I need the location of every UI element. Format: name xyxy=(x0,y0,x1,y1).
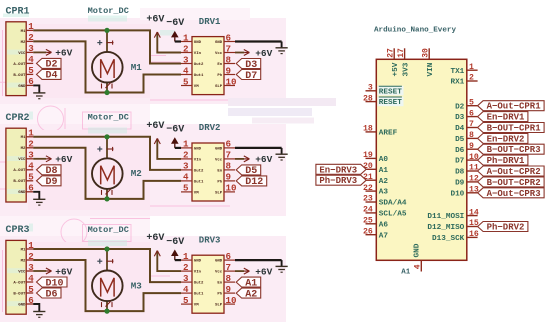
global label En-DRV2 on Arduino xyxy=(478,133,528,143)
svg-text:DRV3: DRV3 xyxy=(199,235,221,245)
svg-text:+6V: +6V xyxy=(146,233,164,244)
svg-text:Out1: Out1 xyxy=(194,74,204,78)
svg-text:+6V: +6V xyxy=(255,266,272,277)
global label D4 on CPR1 B-OUT xyxy=(37,69,62,79)
svg-text:A1: A1 xyxy=(401,269,411,277)
junction at motor M3 bottom xyxy=(104,309,109,314)
global label B-OUT-CPR1 on Arduino xyxy=(478,123,544,133)
power -6V at DRV1 GND pin1 xyxy=(166,18,184,41)
svg-text:1: 1 xyxy=(183,139,189,150)
svg-text:D13_SCK: D13_SCK xyxy=(432,235,465,243)
svg-text:DRV2: DRV2 xyxy=(199,123,221,133)
svg-text:A3: A3 xyxy=(379,189,389,197)
svg-text:SDA/A4: SDA/A4 xyxy=(379,200,407,208)
svg-text:B-OUT: B-OUT xyxy=(13,180,26,184)
svg-text:D7: D7 xyxy=(455,158,465,166)
svg-text:Vcc: Vcc xyxy=(215,271,223,275)
svg-text:Out2: Out2 xyxy=(194,169,204,173)
global label B-OUT-CPR2 on Arduino xyxy=(478,177,544,187)
svg-text:En−DRV3: En−DRV3 xyxy=(319,165,357,175)
svg-text:GND: GND xyxy=(18,303,26,307)
pin 17 3V3 (top) xyxy=(397,48,411,77)
pin 7 D4 (right) xyxy=(455,120,478,133)
pin 14 D11_MOSI (right) xyxy=(427,208,479,221)
svg-text:En−DRV2: En−DRV2 xyxy=(487,134,525,144)
svg-text:5: 5 xyxy=(28,172,34,183)
svg-text:−6V: −6V xyxy=(166,125,184,136)
svg-text:16: 16 xyxy=(469,230,479,239)
driver IC DRV2 (DRV8838) xyxy=(181,123,237,201)
svg-text:4: 4 xyxy=(183,284,189,295)
svg-text:GND: GND xyxy=(194,260,202,264)
wire CPR1 pin1 (M1) to DRV1 Out2 xyxy=(33,30,181,63)
driver IC DRV3 (DRV8838) xyxy=(181,235,237,313)
svg-text:1: 1 xyxy=(469,63,474,72)
encoder CPR3 xyxy=(6,225,35,314)
pin 20 A1 (left) xyxy=(363,162,388,175)
svg-text:4: 4 xyxy=(28,54,34,65)
power +6V at DRV2 Vcc xyxy=(235,154,273,165)
svg-text:M1: M1 xyxy=(131,62,143,73)
svg-text:7: 7 xyxy=(226,262,232,273)
svg-text:3: 3 xyxy=(183,54,189,65)
power -6V at DRV2 GND pin1 xyxy=(166,125,184,148)
svg-text:M2: M2 xyxy=(21,259,26,263)
wire CPR2 pin2 (M2) to DRV2 Out1 xyxy=(33,148,181,199)
svg-text:5: 5 xyxy=(28,65,34,76)
svg-text:+6V: +6V xyxy=(146,14,164,25)
svg-text:A-OUT: A-OUT xyxy=(13,169,26,173)
global label B-OUT-CPR3 on Arduino xyxy=(478,144,544,154)
svg-text:VCC: VCC xyxy=(18,158,26,162)
svg-text:A7: A7 xyxy=(379,232,389,240)
global label En-DRV1 on Arduino xyxy=(478,112,528,122)
global label A-Out-CPR3 on Arduino xyxy=(478,188,544,198)
pin 10 D7 (right) xyxy=(455,153,479,166)
svg-text:Motor_DC: Motor_DC xyxy=(88,225,129,235)
svg-text:B−OUT−CPR2: B−OUT−CPR2 xyxy=(487,178,541,188)
svg-text:9: 9 xyxy=(226,284,232,295)
pin 4 GND (bottom) xyxy=(414,243,423,271)
svg-text:D12_MISO: D12_MISO xyxy=(427,224,464,232)
svg-text:Ph−DRV3: Ph−DRV3 xyxy=(319,176,357,186)
ground at DRV2 GND pin6 xyxy=(235,148,288,160)
pin 8 D5 (right) xyxy=(455,131,478,144)
svg-text:3: 3 xyxy=(368,84,373,93)
svg-text:A2: A2 xyxy=(379,178,389,186)
junction at motor M2 top xyxy=(104,134,109,139)
svg-text:M1: M1 xyxy=(21,30,26,34)
svg-text:10: 10 xyxy=(226,183,237,194)
svg-text:D5: D5 xyxy=(455,136,465,144)
svg-text:B-OUT: B-OUT xyxy=(13,74,26,78)
svg-text:4: 4 xyxy=(183,65,189,76)
svg-text:6: 6 xyxy=(226,251,232,262)
pin 27 +5V (top) xyxy=(387,48,401,77)
global label A2 on DRV3 Ph xyxy=(236,288,261,298)
pin 2 RX1 (right) xyxy=(450,74,477,87)
pin 18 AREF (left) xyxy=(363,125,398,138)
svg-text:B−OUT−CPR1: B−OUT−CPR1 xyxy=(487,123,542,133)
svg-text:M3: M3 xyxy=(131,280,143,291)
svg-text:Arduino_Nano_Every: Arduino_Nano_Every xyxy=(374,27,456,35)
global label D9 on CPR2 B-OUT xyxy=(37,176,62,186)
motor M3 (Motor_DC) xyxy=(88,225,143,311)
wire CPR2 pin1 (M1) to DRV2 Out2 xyxy=(33,137,181,170)
svg-text:D11_MOSI: D11_MOSI xyxy=(427,213,464,221)
svg-text:A0: A0 xyxy=(379,156,389,164)
svg-text:En: En xyxy=(217,282,222,286)
pin 24 SCL/A5 (left) xyxy=(363,206,407,219)
svg-text:En: En xyxy=(217,169,222,173)
svg-text:GND: GND xyxy=(194,41,202,45)
pin 21 A2 (left) xyxy=(363,173,388,186)
svg-text:3: 3 xyxy=(183,161,189,172)
svg-text:5: 5 xyxy=(469,98,474,107)
svg-text:SLP: SLP xyxy=(215,191,223,195)
svg-text:5: 5 xyxy=(183,76,189,87)
svg-text:D4: D4 xyxy=(46,71,58,82)
junction at motor M2 bottom xyxy=(104,196,109,201)
svg-text:SCL/A5: SCL/A5 xyxy=(379,211,407,219)
svg-text:8: 8 xyxy=(226,161,232,172)
svg-text:4: 4 xyxy=(414,264,423,269)
pin 23 SDA/A4 (left) xyxy=(363,195,407,208)
svg-text:VCC: VCC xyxy=(18,52,26,56)
svg-text:+6V: +6V xyxy=(255,154,272,165)
global label A-Out-CPR1 on Arduino xyxy=(478,101,544,111)
svg-text:8: 8 xyxy=(226,273,232,284)
svg-text:VM: VM xyxy=(194,191,199,195)
motor M2 (Motor_DC) xyxy=(88,113,142,199)
svg-text:Ph−DRV1: Ph−DRV1 xyxy=(487,156,525,166)
svg-text:6: 6 xyxy=(226,32,232,43)
svg-text:+5V: +5V xyxy=(392,62,400,76)
ground at DRV3 GND pin6 xyxy=(235,260,288,272)
global label D3 on DRV1 En xyxy=(236,59,261,69)
svg-text:M2: M2 xyxy=(131,168,142,179)
svg-text:4: 4 xyxy=(28,273,34,284)
svg-text:CPR3: CPR3 xyxy=(6,225,30,236)
svg-text:Ph: Ph xyxy=(217,179,222,184)
svg-text:22: 22 xyxy=(363,184,373,193)
svg-text:3V3: 3V3 xyxy=(403,62,411,76)
encoder CPR2 xyxy=(6,113,35,202)
svg-text:2: 2 xyxy=(28,251,34,262)
global label D8 on CPR2 A-OUT xyxy=(37,165,62,175)
svg-text:En: En xyxy=(217,63,222,67)
pin 26 A7 (left) xyxy=(363,227,388,240)
power +6V at DRV3 Vcc xyxy=(235,266,273,277)
svg-text:VIn: VIn xyxy=(194,52,202,56)
pin 25 A6 (left) xyxy=(363,217,388,230)
svg-text:17: 17 xyxy=(397,48,406,58)
power +6V at CPR3 VCC xyxy=(33,266,72,277)
svg-text:4: 4 xyxy=(183,172,189,183)
pin 30 VIN (top) xyxy=(422,48,436,77)
junction at motor M1 bottom xyxy=(104,90,109,95)
svg-text:TX1: TX1 xyxy=(450,68,464,76)
svg-text:Out2: Out2 xyxy=(194,282,204,286)
pin 16 D13_SCK (right) xyxy=(432,230,479,243)
svg-text:GND: GND xyxy=(194,147,202,151)
svg-text:A-OUT: A-OUT xyxy=(13,281,26,285)
svg-text:6: 6 xyxy=(469,109,474,118)
pin 5 D2 (right) xyxy=(455,98,478,111)
svg-text:6: 6 xyxy=(226,139,232,150)
svg-text:Out2: Out2 xyxy=(194,63,204,67)
wire CPR3 pin1 (M1) to DRV3 Out2 xyxy=(33,249,181,282)
pin 28 RESET (left) xyxy=(363,94,402,107)
driver IC DRV1 (DRV8838) xyxy=(181,17,237,95)
svg-text:GND: GND xyxy=(215,41,223,45)
svg-text:2: 2 xyxy=(183,150,189,161)
svg-text:D8: D8 xyxy=(455,169,465,177)
global label D7 on DRV1 Ph xyxy=(236,70,261,80)
pin 13 D10 (right) xyxy=(450,186,478,199)
pin 3 RESET (left) xyxy=(366,84,403,97)
svg-text:D6: D6 xyxy=(46,289,58,300)
svg-text:8: 8 xyxy=(226,54,232,65)
svg-text:3: 3 xyxy=(183,273,189,284)
global label D10 on CPR3 A-OUT xyxy=(37,277,68,287)
power +6V at DRV1 VIn xyxy=(146,14,181,52)
svg-text:M1: M1 xyxy=(21,248,26,252)
svg-text:6: 6 xyxy=(28,76,34,87)
svg-text:DRV1: DRV1 xyxy=(199,17,221,27)
svg-text:24: 24 xyxy=(363,206,373,215)
svg-text:RX1: RX1 xyxy=(450,79,464,87)
svg-text:9: 9 xyxy=(226,172,232,183)
svg-text:−6V: −6V xyxy=(166,237,184,248)
svg-text:Ph: Ph xyxy=(217,73,222,78)
svg-text:5: 5 xyxy=(183,183,189,194)
ground at CPR2 GND xyxy=(33,192,45,205)
svg-text:A-OUT: A-OUT xyxy=(13,63,26,67)
svg-text:18: 18 xyxy=(363,125,373,134)
svg-text:Motor_DC: Motor_DC xyxy=(88,6,129,16)
svg-text:CPR2: CPR2 xyxy=(6,113,30,124)
global label Ph-DRV3 on Arduino A2 pin xyxy=(316,175,366,185)
global label D2 on CPR1 A-OUT xyxy=(37,58,62,68)
svg-text:D2: D2 xyxy=(455,103,465,111)
svg-text:RESET: RESET xyxy=(379,88,402,96)
svg-text:2: 2 xyxy=(183,43,189,54)
svg-text:2: 2 xyxy=(28,32,34,43)
svg-text:VIN: VIN xyxy=(427,62,435,76)
power +6V at DRV3 VIn xyxy=(146,233,181,271)
svg-text:SLP: SLP xyxy=(215,85,223,89)
global label D6 on CPR3 B-OUT xyxy=(37,288,62,298)
pin 22 A3 (left) xyxy=(363,184,388,197)
svg-text:A2: A2 xyxy=(245,289,257,300)
svg-text:M2: M2 xyxy=(21,41,26,45)
svg-text:19: 19 xyxy=(363,151,373,160)
svg-text:9: 9 xyxy=(469,142,474,151)
power -6V at DRV3 GND pin1 xyxy=(166,237,184,260)
svg-text:+6V: +6V xyxy=(255,48,272,59)
svg-text:+6V: +6V xyxy=(55,266,72,277)
svg-text:23: 23 xyxy=(363,195,373,204)
pin 11 D8 (right) xyxy=(455,164,479,177)
svg-text:2: 2 xyxy=(469,74,474,83)
svg-text:A1: A1 xyxy=(379,167,389,175)
junction at motor M1 top xyxy=(104,28,109,33)
svg-text:Motor_DC: Motor_DC xyxy=(88,113,129,123)
svg-text:A−Out−CPR2: A−Out−CPR2 xyxy=(487,167,541,177)
svg-text:VCC: VCC xyxy=(18,270,26,274)
motor M1 (Motor_DC) xyxy=(88,6,143,92)
svg-text:D4: D4 xyxy=(455,125,465,133)
svg-text:GND: GND xyxy=(18,85,26,89)
global label A-Out-CPR2 on Arduino xyxy=(478,166,544,176)
svg-text:GND: GND xyxy=(18,191,26,195)
svg-text:A−Out−CPR3: A−Out−CPR3 xyxy=(487,189,541,199)
svg-text:D9: D9 xyxy=(455,180,465,188)
svg-text:VM: VM xyxy=(194,85,199,89)
svg-text:9: 9 xyxy=(226,65,232,76)
svg-text:14: 14 xyxy=(469,208,479,217)
svg-text:En−DRV1: En−DRV1 xyxy=(487,113,525,123)
svg-text:28: 28 xyxy=(363,94,373,103)
svg-text:RESET: RESET xyxy=(379,99,402,107)
svg-text:D7: D7 xyxy=(245,71,257,82)
svg-text:Vcc: Vcc xyxy=(215,158,223,162)
svg-text:2: 2 xyxy=(28,139,34,150)
ground at CPR1 GND xyxy=(33,85,45,98)
svg-text:7: 7 xyxy=(226,43,232,54)
pin 6 D3 (right) xyxy=(455,109,478,122)
svg-text:27: 27 xyxy=(387,48,396,58)
svg-text:AREF: AREF xyxy=(379,130,398,138)
pin 1 TX1 (right) xyxy=(450,63,477,76)
svg-text:A6: A6 xyxy=(379,221,389,229)
pin 9 D6 (right) xyxy=(455,142,478,155)
ground at DRV1 GND pin6 xyxy=(235,42,288,54)
svg-text:30: 30 xyxy=(422,48,431,58)
svg-text:1: 1 xyxy=(183,251,189,262)
pin 12 D9 (right) xyxy=(455,175,479,188)
junction at motor M3 top xyxy=(104,246,109,251)
svg-text:26: 26 xyxy=(363,227,373,236)
svg-text:D3: D3 xyxy=(455,114,465,122)
pin 19 A0 (left) xyxy=(363,151,388,164)
svg-text:7: 7 xyxy=(226,150,232,161)
ground at CPR3 GND xyxy=(33,304,45,317)
svg-text:VIn: VIn xyxy=(194,271,202,275)
svg-text:D10: D10 xyxy=(450,190,464,198)
svg-text:8: 8 xyxy=(469,131,474,140)
power +6V at DRV2 VIn xyxy=(146,121,181,159)
svg-text:B−OUT−CPR3: B−OUT−CPR3 xyxy=(487,145,541,155)
svg-text:Ph−DRV2: Ph−DRV2 xyxy=(487,222,525,232)
pin 15 D12_MISO (right) xyxy=(427,219,479,232)
svg-text:5: 5 xyxy=(183,295,189,306)
power +6V at DRV1 Vcc xyxy=(235,48,273,59)
power +6V at CPR1 VCC xyxy=(33,48,72,59)
svg-text:7: 7 xyxy=(469,120,474,129)
global label Ph-DRV1 on Arduino xyxy=(478,155,528,165)
svg-text:D6: D6 xyxy=(455,147,465,155)
svg-text:GND: GND xyxy=(215,260,223,264)
svg-text:M1: M1 xyxy=(21,136,26,140)
svg-text:CPR1: CPR1 xyxy=(6,6,30,17)
svg-text:M2: M2 xyxy=(21,147,26,151)
svg-text:5: 5 xyxy=(28,284,34,295)
power +6V at CPR2 VCC xyxy=(33,154,72,165)
svg-text:10: 10 xyxy=(226,76,237,87)
svg-text:6: 6 xyxy=(28,183,34,194)
svg-text:VM: VM xyxy=(194,304,199,308)
svg-text:A−Out−CPR1: A−Out−CPR1 xyxy=(487,102,542,112)
global label D12 on DRV2 Ph xyxy=(236,176,267,186)
svg-text:1: 1 xyxy=(183,32,189,43)
wire CPR1 pin2 (M2) to DRV1 Out1 xyxy=(33,41,181,92)
wire CPR3 pin2 (M2) to DRV3 Out1 xyxy=(33,260,181,311)
svg-text:25: 25 xyxy=(363,217,373,226)
svg-text:GND: GND xyxy=(414,243,422,257)
svg-text:Vcc: Vcc xyxy=(215,52,223,56)
svg-text:4: 4 xyxy=(28,161,34,172)
svg-text:D12: D12 xyxy=(245,177,263,188)
svg-text:GND: GND xyxy=(215,147,223,151)
svg-text:D9: D9 xyxy=(46,177,58,188)
global label En-DRV3 on Arduino A1 pin xyxy=(316,164,366,174)
svg-text:+6V: +6V xyxy=(55,154,72,165)
svg-text:+6V: +6V xyxy=(146,121,164,132)
global label A1 on DRV3 En xyxy=(236,277,261,287)
svg-text:+6V: +6V xyxy=(55,48,72,59)
encoder CPR1 xyxy=(6,6,35,95)
svg-text:B-OUT: B-OUT xyxy=(13,292,26,296)
svg-text:Ph: Ph xyxy=(217,292,222,297)
svg-text:SLP: SLP xyxy=(215,304,223,308)
svg-text:2: 2 xyxy=(183,262,189,273)
svg-text:Out1: Out1 xyxy=(194,293,204,297)
svg-text:6: 6 xyxy=(28,295,34,306)
microcontroller A1 (Arduino_Nano_Every) xyxy=(374,27,467,277)
svg-text:VIn: VIn xyxy=(194,158,202,162)
svg-text:−6V: −6V xyxy=(166,18,184,29)
global label Ph-DRV2 on Arduino xyxy=(478,222,528,232)
global label D5 on DRV2 En xyxy=(236,165,261,175)
svg-text:10: 10 xyxy=(226,295,237,306)
svg-text:Out1: Out1 xyxy=(194,180,204,184)
